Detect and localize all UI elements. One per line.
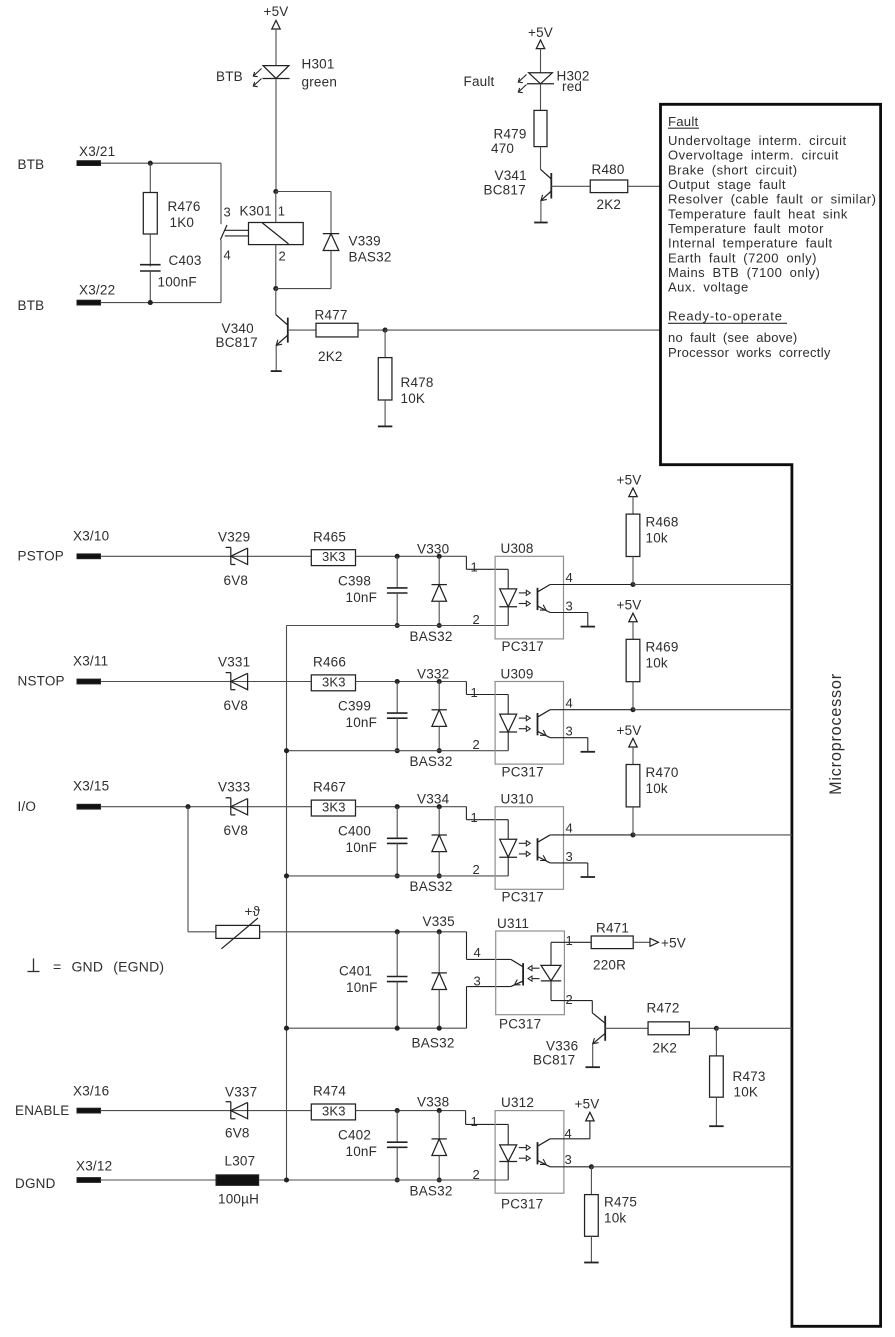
- wire relay contact lower: [220, 240, 222, 303]
- wire R478 to ground: [384, 400, 386, 426]
- wire junction to R475: [590, 1167, 592, 1195]
- label U309: [501, 666, 534, 681]
- wire U310 pin4 to pullup: [550, 834, 633, 836]
- label H301: [302, 57, 335, 72]
- svg-text:X3/16: X3/16: [73, 1084, 109, 1099]
- wire V339 to node: [276, 251, 331, 289]
- label R479: [494, 127, 527, 142]
- zener diode V329: [226, 547, 248, 564]
- diode V335 BAS32: [432, 973, 447, 990]
- label 1K0: [170, 215, 195, 230]
- power +5V symbol (U312): [575, 1096, 600, 1121]
- label X3/16: [73, 1084, 109, 1099]
- LED H301: [263, 66, 290, 79]
- label U312: [501, 1095, 534, 1110]
- label 6V8 (V333): [224, 823, 249, 838]
- svg-text:6V8: 6V8: [225, 1126, 250, 1141]
- svg-text:Undervoltage interm. circuit: Undervoltage interm. circuit: [668, 133, 847, 148]
- label 1 (U310): [471, 810, 478, 825]
- wire U311 pin4 entry: [467, 932, 511, 960]
- inductor L307: [216, 1175, 259, 1186]
- svg-text:R466: R466: [313, 655, 346, 670]
- wire opto U312 pin1 entry: [466, 1111, 509, 1125]
- label 3 (K301 pin): [224, 205, 231, 220]
- optocoupler U311 body: [496, 931, 565, 1015]
- svg-text:V336: V336: [546, 1039, 578, 1054]
- label 100nF: [158, 274, 197, 289]
- svg-text:V330: V330: [417, 541, 449, 556]
- wire U310 pin3 to ground: [550, 863, 588, 877]
- power +5V symbol (relay section): [264, 4, 289, 29]
- svg-text:+5V: +5V: [617, 598, 642, 613]
- svg-text:X3/11: X3/11: [73, 654, 108, 669]
- wire opto U309 pin1 entry: [466, 682, 508, 695]
- svg-text:R478: R478: [401, 375, 434, 390]
- opto U312 LED arrows: [519, 1145, 531, 1161]
- label V340: [222, 321, 254, 336]
- svg-text:2K2: 2K2: [653, 1041, 678, 1056]
- svg-text:Ready-to-operate: Ready-to-operate: [668, 309, 783, 324]
- wire X3/12 to L307: [101, 1179, 217, 1181]
- wire V334 lower: [438, 852, 440, 876]
- label R473: [733, 1069, 766, 1084]
- svg-text:10k: 10k: [646, 656, 668, 671]
- svg-text:R465: R465: [313, 529, 346, 544]
- label 10k (R475): [604, 1211, 626, 1226]
- wire R477 to junction: [358, 329, 385, 331]
- junction bus / U309 rail: [284, 748, 289, 753]
- svg-text:4: 4: [224, 248, 231, 263]
- svg-text:10K: 10K: [734, 1085, 759, 1100]
- ground (R478): [378, 425, 393, 427]
- opto U308 LED: [499, 569, 517, 625]
- svg-text:V341: V341: [495, 168, 527, 183]
- label L307: [225, 1154, 256, 1169]
- svg-text:BAS32: BAS32: [410, 1184, 453, 1199]
- label 2 (U312): [473, 1167, 480, 1182]
- label 10nF (C400): [346, 840, 378, 855]
- svg-text:+ϑ: +ϑ: [245, 904, 261, 919]
- svg-text:Output stage fault: Output stage fault: [668, 177, 786, 192]
- wire H302 to R479: [540, 84, 542, 111]
- diode V332 BAS32: [432, 710, 447, 727]
- label R467: [313, 780, 346, 795]
- label V334: [417, 792, 450, 807]
- svg-text:C401: C401: [339, 964, 372, 979]
- label V335: [423, 914, 455, 929]
- wire node to R476: [149, 163, 151, 192]
- wire R468 to junction: [632, 557, 634, 585]
- label BTB (X3/21): [18, 157, 45, 172]
- svg-text:R469: R469: [646, 640, 679, 655]
- label 10K (R473): [734, 1085, 759, 1100]
- label R474: [313, 1083, 346, 1098]
- svg-text:Internal temperature fault: Internal temperature fault: [668, 236, 833, 251]
- return rail row U310: [287, 875, 509, 877]
- label 100uH (L307): [218, 1192, 259, 1207]
- wire U312 pin3 to microprocessor: [591, 1166, 792, 1168]
- svg-text:+5V: +5V: [617, 723, 642, 738]
- wire V341 base to R480: [551, 185, 590, 187]
- label DGND: [15, 1176, 56, 1191]
- wire C399 lower: [396, 718, 398, 751]
- junction V332 top: [437, 679, 442, 684]
- svg-text:H301: H301: [302, 57, 335, 72]
- power +5V symbol (R470): [617, 723, 642, 747]
- junction bus / DGND rail: [284, 1177, 289, 1182]
- return rail row U308: [287, 625, 509, 627]
- capacitor C401: [387, 977, 408, 982]
- svg-text:+5V: +5V: [575, 1096, 600, 1111]
- svg-text:DGND: DGND: [15, 1176, 56, 1191]
- label Ready-to-operate heading: [668, 309, 787, 324]
- connector pin X3/12: [77, 1178, 101, 1183]
- wire X3/15 to zener: [101, 806, 312, 808]
- svg-text:2: 2: [279, 249, 286, 264]
- label BAS32 (V335): [412, 1036, 455, 1051]
- svg-text:Overvoltage interm. circuit: Overvoltage interm. circuit: [668, 148, 839, 163]
- svg-text:2: 2: [473, 737, 480, 752]
- label V337: [225, 1084, 257, 1099]
- label 1 (K301 pin): [278, 204, 285, 219]
- svg-text:10nF: 10nF: [346, 715, 378, 730]
- junction pullup R469: [630, 707, 635, 712]
- svg-text:2K2: 2K2: [597, 197, 622, 212]
- label BTB (X3/22): [18, 298, 45, 313]
- wire node to V339 top: [276, 192, 331, 234]
- label R468: [646, 515, 679, 530]
- transistor V336: [592, 1013, 605, 1044]
- label R475: [604, 1195, 637, 1210]
- svg-text:BAS32: BAS32: [412, 1036, 455, 1051]
- label X3/12: [76, 1159, 112, 1174]
- wire R479 to V341 collector: [540, 147, 542, 170]
- svg-text:2K2: 2K2: [318, 349, 343, 364]
- svg-text:U311: U311: [497, 916, 529, 931]
- junction V338 top: [437, 1108, 442, 1113]
- resistor R469: [626, 639, 640, 681]
- label R471: [596, 921, 629, 936]
- junction V335 bottom: [437, 1026, 442, 1031]
- label R476: [168, 199, 201, 214]
- wire U308 pin4 to microprocessor: [633, 584, 792, 586]
- LED H301 emission arrows: [253, 69, 261, 87]
- svg-text:100µH: 100µH: [218, 1192, 259, 1207]
- label 1 (U311): [566, 933, 573, 948]
- wire +5V to R470: [632, 747, 634, 765]
- wire opto U308 pin1 entry: [466, 556, 508, 569]
- label 2 (U310): [473, 862, 480, 877]
- svg-text:R475: R475: [604, 1195, 637, 1210]
- svg-text:4: 4: [566, 695, 573, 710]
- ground (U309 pin3): [581, 751, 596, 753]
- svg-text:2: 2: [566, 992, 573, 1007]
- label R480: [592, 162, 625, 177]
- label X3/22: [79, 283, 115, 298]
- wire R474 to opto pin1: [356, 1110, 466, 1112]
- svg-text:V338: V338: [417, 1095, 449, 1110]
- label 2 (U311): [566, 992, 573, 1007]
- svg-text:V332: V332: [417, 667, 449, 682]
- svg-text:U312: U312: [501, 1095, 534, 1110]
- wire U310 pin4 to microprocessor: [633, 834, 792, 836]
- label 3 (U310): [566, 849, 573, 864]
- svg-text:R477: R477: [315, 308, 348, 323]
- label U310: [501, 792, 534, 807]
- ground (U308 pin3): [581, 626, 596, 628]
- wire C400 upper: [396, 807, 398, 839]
- label 2 (U309): [473, 737, 480, 752]
- label Microprocessor: [827, 673, 845, 795]
- svg-text:R472: R472: [647, 1001, 680, 1016]
- wire U311 pin3 exit: [467, 987, 511, 1029]
- svg-text:3K3: 3K3: [322, 800, 346, 815]
- wire +5V to R469: [632, 622, 634, 640]
- label V341: [495, 168, 527, 183]
- wire R471 to +5V arrow: [633, 941, 650, 943]
- svg-text:1: 1: [471, 810, 478, 825]
- svg-text:Resolver (cable fault or simil: Resolver (cable fault or similar): [668, 192, 876, 207]
- svg-text:Fault: Fault: [668, 114, 698, 129]
- svg-text:V334: V334: [417, 792, 450, 807]
- svg-text:10nF: 10nF: [346, 840, 378, 855]
- label R477: [315, 308, 348, 323]
- ground (U310 pin3): [581, 876, 596, 878]
- opto U311 phototransistor: [511, 959, 523, 986]
- svg-text:PC317: PC317: [502, 890, 544, 905]
- junction V338 bottom: [437, 1177, 442, 1182]
- svg-text:R467: R467: [313, 780, 346, 795]
- junction I/O thermistor tap: [185, 804, 190, 809]
- wire X3/16 to zener: [101, 1110, 312, 1112]
- wire V338 upper: [438, 1111, 440, 1139]
- wire C401 lower: [396, 982, 398, 1029]
- junction R472/R473: [714, 1026, 719, 1031]
- power +5V symbol (R469): [617, 598, 642, 622]
- svg-text:6V8: 6V8: [224, 698, 249, 713]
- label 2K2 (R472): [653, 1041, 678, 1056]
- label C401: [339, 964, 372, 979]
- wire V334 upper: [438, 807, 440, 835]
- label R465: [313, 529, 346, 544]
- wire R469 to junction: [632, 682, 634, 710]
- wire V335 upper: [438, 932, 440, 973]
- opto U312 phototransistor: [538, 1139, 551, 1167]
- junction C398 bottom: [395, 623, 400, 628]
- svg-text:Microprocessor: Microprocessor: [827, 673, 845, 795]
- svg-text:1: 1: [278, 204, 285, 219]
- label I/O: [18, 799, 37, 814]
- ready list text: [668, 330, 831, 360]
- wire V332 upper: [438, 682, 440, 710]
- connector pin X3/16: [77, 1108, 101, 1113]
- label 4 (U308): [566, 570, 573, 585]
- svg-text:C400: C400: [338, 824, 371, 839]
- junction bus / U310 rail: [284, 873, 289, 878]
- svg-text:3: 3: [565, 1152, 572, 1167]
- label U308: [501, 541, 534, 556]
- label R466: [313, 655, 346, 670]
- resistor R472: [648, 1022, 689, 1035]
- svg-text:V337: V337: [225, 1084, 257, 1099]
- label NSTOP: [18, 674, 65, 689]
- junction C402 top: [395, 1108, 400, 1113]
- zener diode V337: [226, 1102, 248, 1119]
- junction C401 bottom: [395, 1026, 400, 1031]
- svg-text:BTB: BTB: [216, 69, 243, 84]
- svg-text:BAS32: BAS32: [410, 629, 453, 644]
- opto U310 LED arrows: [519, 841, 531, 857]
- zener diode V333: [226, 798, 248, 815]
- label 2K2 (R477): [318, 349, 343, 364]
- label C402: [338, 1128, 371, 1143]
- svg-text:+5V: +5V: [528, 25, 553, 40]
- svg-text:BC817: BC817: [484, 183, 526, 198]
- svg-text:220R: 220R: [593, 958, 626, 973]
- label 4 (U312): [565, 1126, 572, 1141]
- svg-text:PC317: PC317: [499, 1017, 541, 1032]
- wire relay pin 1: [275, 192, 277, 223]
- connector pin X3/15: [77, 804, 101, 809]
- connector pin X3/22: [77, 300, 101, 305]
- svg-text:V340: V340: [222, 321, 254, 336]
- svg-text:C403: C403: [169, 253, 202, 268]
- svg-text:10k: 10k: [646, 781, 668, 796]
- svg-text:6V8: 6V8: [224, 823, 249, 838]
- junction relay pin2 node: [273, 286, 278, 291]
- label 1 (U312): [471, 1114, 478, 1129]
- label U311: [497, 916, 529, 931]
- power +5V arrow (R471): [650, 935, 686, 950]
- svg-text:R468: R468: [646, 515, 679, 530]
- svg-text:10nF: 10nF: [346, 980, 378, 995]
- label C403: [169, 253, 202, 268]
- label ENABLE: [15, 1103, 69, 1118]
- label BAS32 (V339): [349, 250, 392, 265]
- label 3 (U312): [565, 1152, 572, 1167]
- label 1 (U309): [471, 685, 478, 700]
- svg-text:X3/10: X3/10: [73, 528, 109, 543]
- svg-text:red: red: [562, 79, 582, 94]
- svg-text:1: 1: [566, 933, 573, 948]
- label V330: [417, 541, 449, 556]
- svg-text:Earth fault (7200 only): Earth fault (7200 only): [668, 250, 817, 265]
- label 10k (R468): [646, 531, 668, 546]
- svg-text:PC317: PC317: [502, 639, 544, 654]
- label 10nF (C398): [346, 590, 378, 605]
- svg-text:2: 2: [473, 612, 480, 627]
- resistor R478: [378, 358, 392, 400]
- resistor R467 3K3: [311, 800, 355, 817]
- label PC317 (U312): [501, 1197, 543, 1212]
- label 220R (R471): [593, 958, 626, 973]
- svg-text:100nF: 100nF: [158, 274, 197, 289]
- wire R467 to opto pin1: [356, 806, 467, 808]
- relay K301 switch contact: [220, 225, 227, 240]
- resistor R480: [590, 180, 628, 193]
- svg-text:R471: R471: [596, 921, 629, 936]
- svg-text:10nF: 10nF: [346, 590, 378, 605]
- label 10nF (C399): [346, 715, 378, 730]
- wire V340 base to R477: [288, 329, 316, 331]
- junction V334 top: [437, 804, 442, 809]
- label 3 (U311): [474, 973, 481, 988]
- wire junction to R478: [384, 330, 386, 358]
- junction C398 top: [395, 554, 400, 559]
- label 2K2 (R480): [597, 197, 622, 212]
- label BC817 (V336): [533, 1053, 575, 1068]
- svg-text:Temperature fault heat sink: Temperature fault heat sink: [668, 206, 848, 221]
- label V338: [417, 1095, 449, 1110]
- ground (R473): [709, 1125, 724, 1127]
- junction V330 bottom: [437, 623, 442, 628]
- wire U308 pin3 to ground: [550, 613, 588, 627]
- svg-text:ENABLE: ENABLE: [15, 1103, 69, 1118]
- svg-text:V331: V331: [218, 655, 250, 670]
- svg-text:+5V: +5V: [264, 4, 289, 19]
- wire C401 upper: [396, 932, 398, 977]
- wire C399 upper: [396, 682, 398, 714]
- svg-text:1: 1: [471, 685, 478, 700]
- wire R473 to ground: [715, 1097, 717, 1126]
- resistor R473: [710, 1056, 724, 1097]
- wire C400 lower: [396, 843, 398, 876]
- wire U312 pin4 to +5V: [550, 1121, 590, 1139]
- wire U311 pin1 to R471: [551, 941, 591, 943]
- wire C398 upper: [396, 556, 398, 588]
- opto U311 LED arrows: [528, 966, 540, 982]
- label 10nF (C401): [346, 980, 378, 995]
- junction X3/21: [148, 161, 153, 166]
- svg-text:BTB: BTB: [18, 157, 45, 172]
- svg-text:4: 4: [566, 821, 573, 836]
- junction C401 top: [395, 929, 400, 934]
- label 10k (R470): [646, 781, 668, 796]
- return rail row U309: [287, 750, 509, 752]
- svg-text:PC317: PC317: [501, 1197, 543, 1212]
- svg-text:Mains BTB (7100 only): Mains BTB (7100 only): [668, 265, 820, 280]
- label green: [302, 75, 338, 90]
- junction C400 bottom: [395, 873, 400, 878]
- wire R465 to opto pin1: [356, 555, 467, 557]
- label H302: [557, 69, 590, 84]
- wire V336 base to R472: [605, 1027, 648, 1029]
- svg-text:R474: R474: [313, 1083, 346, 1098]
- wire V330 upper: [438, 556, 440, 584]
- svg-text:+5V: +5V: [617, 473, 642, 488]
- junction C402 bottom: [395, 1177, 400, 1182]
- svg-text:X3/15: X3/15: [73, 779, 109, 794]
- svg-text:C402: C402: [338, 1128, 371, 1143]
- label X3/10: [73, 528, 109, 543]
- label 6V8 (V337): [225, 1126, 250, 1141]
- wire U309 pin3 to ground: [550, 738, 588, 752]
- svg-text:C399: C399: [338, 699, 371, 714]
- junction V330 top: [437, 554, 442, 559]
- label 6V8 (V331): [224, 698, 249, 713]
- label PC317 (U311): [499, 1017, 541, 1032]
- label 4 (U309): [566, 695, 573, 710]
- junction U312 pin3 / R475: [589, 1164, 594, 1169]
- svg-text:green: green: [302, 75, 338, 90]
- opto U310 LED: [499, 820, 517, 876]
- label +theta: [245, 904, 261, 919]
- svg-text:U310: U310: [501, 792, 534, 807]
- svg-text:BAS32: BAS32: [410, 754, 453, 769]
- resistor R476: [143, 193, 157, 235]
- svg-text:1: 1: [471, 560, 478, 575]
- opto U308 LED arrows: [519, 590, 531, 606]
